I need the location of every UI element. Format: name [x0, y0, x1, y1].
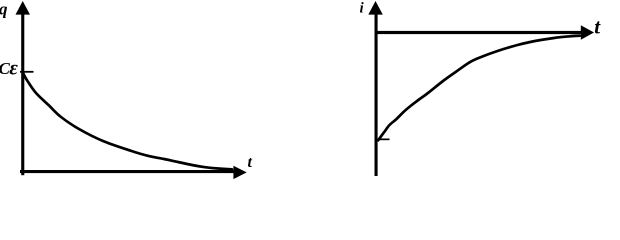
left graph: t axis arrowhead	[233, 166, 246, 179]
right graph: t axis (horizontal)	[375, 31, 582, 34]
svg-text:t: t	[248, 154, 253, 171]
left graph: q axis arrowhead	[16, 1, 31, 15]
left graph: Ce tick mark	[20, 71, 34, 73]
right graph: i axis arrowhead	[368, 1, 383, 15]
right graph: t axis arrowhead	[581, 25, 594, 39]
right graph: i axis (vertical)	[375, 12, 378, 176]
left graph: t axis (horizontal)	[20, 170, 234, 173]
right graph: -e/R tick mark	[376, 139, 390, 141]
svg-text:ε: ε	[9, 55, 18, 79]
right graph: current curve i(t)	[378, 36, 580, 141]
svg-text:q: q	[0, 0, 8, 19]
left graph: q axis (vertical)	[21, 12, 24, 175]
left graph: discharge curve q(t)	[23, 73, 232, 169]
